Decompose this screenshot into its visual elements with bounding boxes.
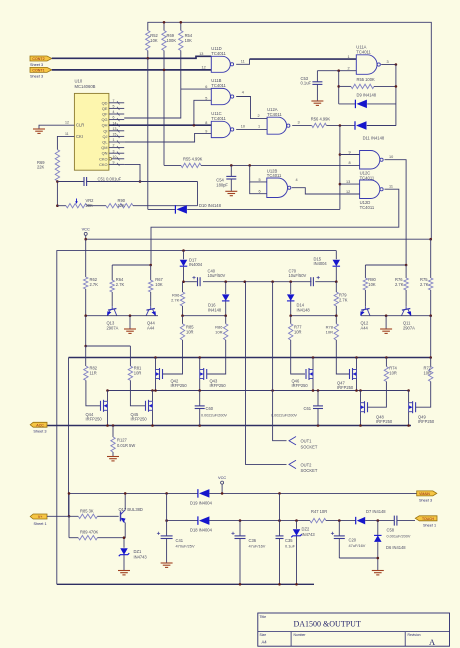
svg-text:11: 11 — [389, 185, 393, 189]
svg-text:10R: 10R — [186, 329, 194, 334]
svg-text:IN4148: IN4148 — [297, 307, 311, 312]
resistor R69b 22K — [55, 150, 59, 181]
wire R55 feedback loop — [338, 71, 340, 104]
op-amp U11A TC4011 nand gate — [356, 55, 377, 75]
svg-text:TC4011: TC4011 — [267, 112, 282, 117]
resistor R74 10R — [385, 358, 387, 367]
svg-text:12: 12 — [202, 66, 206, 70]
svg-text:22K: 22K — [37, 165, 45, 170]
svg-text:2.7K: 2.7K — [395, 282, 404, 287]
svg-text:D6 IN4148: D6 IN4148 — [386, 545, 406, 550]
svg-text:10uF/50V: 10uF/50V — [289, 273, 307, 278]
transistor Q11 2907A — [405, 306, 407, 309]
pin 2 QM of U10 — [109, 147, 124, 149]
svg-text:C58: C58 — [387, 527, 395, 532]
connector OUT2 SOCKET — [289, 460, 296, 468]
resistor R67 10K — [149, 280, 153, 292]
resistor R55b 4.99K row — [164, 164, 181, 166]
svg-text:6: 6 — [205, 85, 207, 89]
svg-text:CKO: CKO — [99, 156, 107, 161]
wire U11C output to U12A pin 1 — [236, 128, 267, 130]
wire left driver split — [112, 264, 151, 266]
resistor R56 4.99K — [292, 124, 312, 126]
svg-text:TC4011: TC4011 — [360, 205, 375, 210]
svg-text:Sheet 3: Sheet 3 — [30, 63, 43, 67]
svg-text:2.7K: 2.7K — [90, 282, 99, 287]
svg-text:10: 10 — [389, 155, 393, 159]
svg-text:TOUCH: TOUCH — [422, 517, 435, 521]
svg-text:2.7K: 2.7K — [171, 297, 180, 302]
svg-text:4: 4 — [113, 110, 115, 114]
ground at C53 — [311, 100, 323, 102]
svg-text:Sheet 1: Sheet 1 — [423, 524, 436, 528]
svg-text:IRFP250: IRFP250 — [171, 383, 188, 388]
svg-text:0.1uF: 0.1uF — [285, 543, 296, 548]
svg-text:D9 IN4148: D9 IN4148 — [357, 92, 377, 97]
wire to U12B pins — [250, 165, 267, 182]
svg-text:Sheet 3: Sheet 3 — [30, 75, 43, 79]
svg-text:10: 10 — [241, 125, 245, 129]
svg-text:OUT1: OUT1 — [301, 439, 313, 444]
svg-text:D7 IN4148: D7 IN4148 — [366, 509, 386, 514]
wire right driver split — [365, 264, 406, 266]
svg-text:6: 6 — [113, 116, 115, 120]
svg-text:CONT1: CONT1 — [32, 69, 44, 73]
svg-text:QI: QI — [103, 128, 107, 133]
svg-text:12: 12 — [346, 190, 350, 194]
wire CKI to R69b — [57, 136, 74, 149]
ground at D6 — [372, 570, 384, 572]
svg-text:VCC: VCC — [218, 475, 226, 480]
off-sheet connector CONT1 — [30, 67, 52, 72]
svg-text:QH: QH — [102, 123, 108, 128]
wire left base rail — [86, 315, 158, 317]
capacitor C70 10uF/50V — [310, 277, 312, 286]
svg-text:11R: 11R — [90, 371, 97, 376]
svg-text:V+: V+ — [38, 515, 43, 519]
wire U10 pin 9 to C51 row — [124, 164, 140, 181]
wire bottom rail — [57, 583, 314, 585]
mosfet Q47 IRFP250 — [349, 369, 351, 379]
wire D18 row — [167, 520, 198, 522]
wire U11A pin 2 row — [317, 70, 356, 72]
svg-text:C20: C20 — [349, 538, 357, 543]
svg-text:10R: 10R — [215, 329, 222, 334]
pin 15 QJ of U10 — [109, 135, 124, 137]
svg-text:A44: A44 — [361, 325, 369, 330]
op-amp U11B TC4011 nand gate — [211, 88, 230, 104]
svg-text:CKI: CKI — [76, 134, 83, 139]
off-sheet connector VM — [417, 491, 437, 496]
capacitor C20 47uF/16V — [338, 521, 340, 536]
svg-text:8: 8 — [349, 161, 351, 165]
svg-text:CLR: CLR — [76, 123, 84, 128]
resistor R78 10R — [334, 324, 338, 340]
svg-text:9: 9 — [349, 150, 351, 154]
svg-text:10K: 10K — [368, 282, 376, 287]
wire C51 to VR2 row — [197, 182, 199, 206]
wire V+ drain rail — [69, 357, 431, 359]
svg-text:R89 470K: R89 470K — [80, 530, 98, 535]
pin 13 QI of U10 — [109, 130, 124, 132]
resistor R85 10R — [180, 324, 184, 340]
svg-text:2: 2 — [348, 66, 350, 70]
svg-text:C36: C36 — [249, 538, 257, 543]
diode D6 IN4148 — [377, 521, 379, 536]
pin 10 CKO of U10 — [109, 158, 112, 161]
resistor R52 — [146, 31, 150, 51]
svg-text:10K: 10K — [185, 38, 193, 43]
svg-text:13: 13 — [113, 127, 117, 131]
svg-text:3: 3 — [113, 149, 115, 153]
svg-text:IRFP250: IRFP250 — [337, 385, 354, 390]
wire right base rail — [361, 315, 431, 317]
wire mid output rail — [108, 390, 409, 392]
pin 6 QG of U10 — [109, 119, 124, 121]
mosfet Q44 IRFP250 low — [100, 401, 102, 411]
capacitor C58 0.001uF/200V — [393, 516, 395, 526]
resistor R77 10R — [289, 324, 293, 340]
svg-text:SOCKET: SOCKET — [301, 468, 318, 473]
svg-text:Sheet 3: Sheet 3 — [33, 430, 46, 434]
wire Q17 collector — [124, 493, 126, 509]
svg-text:D18 IN4004: D18 IN4004 — [190, 528, 213, 533]
svg-text:Sheet 3: Sheet 3 — [419, 499, 432, 503]
diode D14 IN4148 — [290, 282, 292, 294]
svg-text:TC4011: TC4011 — [211, 51, 226, 56]
pin 9 CKO of U10 — [109, 163, 124, 165]
svg-text:3: 3 — [387, 60, 389, 64]
svg-text:D19 IN4004: D19 IN4004 — [190, 500, 213, 505]
capacitor C40 10uF/50V — [197, 277, 199, 286]
diode D7 IN4148 — [355, 517, 357, 525]
resistor R79 2.7K — [334, 292, 338, 306]
resistor R64 2.7K — [110, 280, 114, 292]
mosfet Q49 IRFP250 — [415, 402, 417, 412]
op-amp U11D TC4011 nand gate — [211, 56, 230, 72]
svg-text:IRFP250: IRFP250 — [210, 383, 227, 388]
svg-text:TC4011: TC4011 — [211, 83, 226, 88]
off-sheet connector ACC — [30, 422, 47, 427]
wire R54 to U11B pin 6 — [124, 51, 181, 119]
off-sheet connector V+ — [30, 514, 47, 519]
resistor R75 2.7K — [430, 239, 432, 278]
svg-text:10: 10 — [113, 155, 117, 159]
svg-text:Title: Title — [260, 615, 267, 619]
resistor R55 100K — [339, 85, 351, 87]
pin 7 QD of U10 — [109, 102, 124, 104]
svg-text:Number: Number — [294, 633, 307, 637]
capacitor C35 0.1uF — [279, 493, 281, 536]
svg-text:2: 2 — [113, 144, 115, 148]
svg-text:TC4011: TC4011 — [267, 173, 282, 178]
off-sheet connector CONT2 — [30, 56, 52, 61]
capacitor C54 180pF — [230, 165, 232, 176]
wire CONT2 to U11D pin 13 — [52, 56, 212, 58]
svg-text:R127: R127 — [117, 438, 128, 443]
title block — [258, 613, 450, 646]
svg-text:10R: 10R — [294, 329, 302, 334]
svg-text:7: 7 — [113, 99, 115, 103]
wire CONT1 to U11D pin 12 — [52, 69, 212, 71]
svg-text:DZ1: DZ1 — [134, 549, 142, 554]
svg-text:13: 13 — [346, 180, 350, 184]
svg-text:R85 3K: R85 3K — [80, 508, 94, 513]
svg-text:DA1500 &OUTPUT: DA1500 &OUTPUT — [294, 620, 361, 629]
resistor R82 11R — [85, 346, 87, 366]
svg-text:R47 10R: R47 10R — [311, 509, 327, 514]
svg-text:DZ2: DZ2 — [302, 526, 310, 531]
svg-text:0.01R 5W: 0.01R 5W — [117, 443, 135, 448]
zener DZ1 IN4743 — [120, 548, 128, 555]
svg-text:0.1uF: 0.1uF — [301, 81, 312, 86]
wire clamp rail — [57, 251, 337, 585]
svg-text:10uF/50V: 10uF/50V — [208, 273, 226, 278]
ground mid left — [129, 316, 131, 329]
svg-text:MC14060B: MC14060B — [75, 84, 96, 89]
svg-text:CKO: CKO — [99, 162, 107, 167]
svg-text:VCC: VCC — [82, 227, 90, 232]
diode D18 IN4004 — [197, 516, 199, 525]
resistor R80 10K — [363, 278, 367, 290]
svg-text:IN4004: IN4004 — [314, 261, 328, 266]
diode D11 IN4148 — [354, 121, 356, 130]
op-amp U12D TC4011 nand gate — [360, 180, 380, 199]
svg-text:QD: QD — [102, 100, 108, 105]
svg-text:0.0022uF/200V: 0.0022uF/200V — [271, 413, 297, 417]
svg-text:IRFP250: IRFP250 — [418, 419, 435, 424]
pin 5 QE of U10 — [109, 107, 124, 109]
svg-text:A4: A4 — [262, 640, 268, 645]
resistor R89 470K — [68, 516, 70, 537]
svg-text:IRFP250: IRFP250 — [86, 417, 103, 422]
svg-text:11: 11 — [241, 60, 245, 64]
svg-text:C35: C35 — [285, 538, 293, 543]
resistor R62 2.7K — [85, 239, 87, 277]
svg-text:A44: A44 — [147, 325, 155, 330]
pin 14 QH of U10 — [109, 124, 124, 126]
wire U12C output to right driver — [385, 160, 407, 265]
ground mid right — [385, 316, 387, 329]
mosfet Q42 IRFP250 — [162, 369, 164, 379]
op-amp U12B TC4011 nand gate — [267, 178, 288, 198]
svg-text:C51 0.001uF: C51 0.001uF — [98, 176, 122, 181]
svg-text:A: A — [429, 637, 436, 647]
svg-text:U10: U10 — [75, 79, 83, 84]
svg-text:47uF/16V: 47uF/16V — [249, 543, 266, 548]
op-amp U11C TC4011 nand gate — [211, 121, 230, 137]
potentiometer VR2 20K — [57, 205, 66, 207]
resistor R96 2.7K — [180, 292, 184, 306]
svg-text:9: 9 — [113, 161, 115, 165]
svg-text:2: 2 — [258, 114, 260, 118]
svg-text:QN: QN — [102, 151, 108, 156]
svg-text:1: 1 — [113, 138, 115, 142]
svg-text:IN4743: IN4743 — [302, 532, 316, 537]
wire OUT2 column — [246, 282, 287, 465]
svg-text:TC4011: TC4011 — [211, 116, 226, 121]
svg-text:QG: QG — [101, 117, 107, 122]
diode D17 IN4004 — [183, 251, 185, 260]
svg-text:3: 3 — [298, 121, 300, 125]
wire OUT1 column — [273, 282, 287, 441]
svg-text:180pF: 180pF — [216, 183, 228, 188]
svg-text:5: 5 — [113, 105, 115, 109]
wire U12B output to U12D pin 12 — [292, 188, 360, 194]
op-amp U12C TC4011 nand gate — [360, 151, 380, 170]
capacitor C36 47uF/16V — [239, 521, 241, 536]
svg-text:10R: 10R — [134, 371, 142, 376]
svg-text:2907A: 2907A — [107, 325, 119, 330]
svg-text:CONT2: CONT2 — [32, 57, 44, 61]
capacitor C60 0.0022uF/200V — [199, 391, 201, 406]
wire branch to U11B pin 5 — [194, 100, 211, 125]
svg-text:D11 IN4148: D11 IN4148 — [363, 136, 385, 141]
svg-text:IRFP250: IRFP250 — [292, 383, 309, 388]
diode D10 IN4148 — [147, 58, 149, 209]
svg-text:2907A: 2907A — [403, 325, 415, 330]
pin 4 QF of U10 — [109, 113, 124, 115]
svg-text:4: 4 — [242, 91, 244, 95]
wire C40 row — [184, 281, 197, 283]
svg-text:IN4148: IN4148 — [208, 307, 222, 312]
svg-text:QM: QM — [101, 145, 107, 150]
resistor R47 10R — [310, 518, 326, 522]
svg-text:IRFP250: IRFP250 — [376, 419, 393, 424]
svg-text:11: 11 — [65, 132, 69, 136]
mosfet Q46 IRFP250 — [305, 369, 307, 379]
resistor R76 2.7K — [404, 278, 408, 290]
wire VCC top rail — [147, 51, 149, 59]
svg-text:2.7K: 2.7K — [116, 282, 125, 287]
off-sheet connector TOUCH — [415, 516, 437, 521]
resistor R72 10R — [430, 358, 432, 367]
transistor Q12 A44 — [364, 306, 366, 309]
capacitor C41 470uF/25V — [166, 493, 168, 536]
svg-text:10R: 10R — [389, 371, 397, 376]
capacitor C51 0.001uF — [57, 181, 84, 183]
svg-text:10K: 10K — [150, 38, 158, 43]
resistor R81 10R — [129, 346, 131, 366]
svg-text:VMAIN: VMAIN — [419, 492, 430, 496]
wire Q17 emitter — [124, 523, 125, 548]
svg-text:R55 4.99K: R55 4.99K — [183, 157, 203, 162]
svg-text:2.7K: 2.7K — [339, 297, 348, 302]
resistor R54 — [180, 22, 182, 30]
resistor R69 — [163, 22, 165, 30]
svg-text:C61: C61 — [304, 406, 312, 411]
wire U10 pin 14 to U11C pin 8 — [109, 124, 211, 126]
svg-text:1: 1 — [258, 125, 260, 129]
svg-text:C60: C60 — [206, 406, 214, 411]
wire VCC rail bottom — [69, 492, 167, 494]
svg-text:0.001uF/200V: 0.001uF/200V — [387, 534, 411, 538]
svg-text:10R: 10R — [424, 371, 432, 376]
connector OUT1 SOCKET — [289, 437, 296, 445]
diode D9 IN4148 — [339, 103, 356, 105]
wire V+ row — [47, 515, 78, 517]
svg-text:C41: C41 — [176, 538, 184, 543]
svg-text:1: 1 — [348, 55, 350, 59]
wire U11A output node — [381, 64, 396, 66]
svg-text:TC4011: TC4011 — [356, 50, 371, 55]
wire U12 input column — [339, 126, 341, 210]
wire gate feed line left — [86, 345, 131, 347]
transistor Q44 A44 — [150, 306, 152, 309]
svg-text:Q17 BUL38D: Q17 BUL38D — [119, 507, 143, 512]
svg-text:QJ: QJ — [103, 134, 108, 139]
pin 1 QL of U10 — [109, 141, 124, 143]
wire chain to output — [85, 316, 87, 346]
svg-text:2.7K: 2.7K — [420, 282, 429, 287]
wire U11D output to U11A pin 1 — [236, 59, 249, 64]
resistor R85b 3K — [78, 514, 97, 518]
svg-text:ACC: ACC — [36, 423, 44, 427]
svg-text:R55 100K: R55 100K — [357, 77, 375, 82]
svg-text:Sheet 1: Sheet 1 — [34, 522, 47, 526]
pin 3 QN of U10 — [109, 152, 124, 154]
svg-text:6: 6 — [259, 190, 261, 194]
wire source rail bottom — [47, 425, 411, 427]
ground at DZ1 — [118, 570, 130, 572]
transistor Q17 BUL38D — [120, 512, 122, 522]
zener DZ2 IN4743 — [296, 521, 298, 529]
svg-text:0.0022uF/200V: 0.0022uF/200V — [201, 413, 227, 417]
node rail junctions — [163, 21, 166, 24]
wire U11C pin 9 to U10 pin 1 — [124, 133, 211, 142]
ground at R127 — [107, 456, 119, 458]
wire R75 bottom chain — [430, 316, 432, 358]
svg-text:12K: 12K — [118, 203, 126, 208]
svg-text:QE: QE — [102, 106, 108, 111]
wire mid row2 left — [183, 315, 226, 317]
svg-text:Revision: Revision — [408, 633, 421, 637]
svg-text:4: 4 — [296, 178, 298, 182]
svg-text:IN4004: IN4004 — [189, 262, 203, 267]
ground at C54 — [225, 190, 237, 192]
svg-text:IN4743: IN4743 — [134, 554, 148, 559]
diode D19 IN4004 — [197, 489, 199, 498]
resistor R90 12K — [106, 204, 133, 208]
svg-text:20K: 20K — [86, 203, 94, 208]
wire U12D output feedback to left driver — [151, 189, 399, 265]
svg-text:QL: QL — [102, 140, 108, 145]
svg-text:OUT2: OUT2 — [301, 462, 313, 467]
svg-text:QF: QF — [102, 112, 108, 117]
svg-text:15: 15 — [113, 133, 117, 137]
svg-text:Size: Size — [260, 633, 267, 637]
svg-text:SOCKET: SOCKET — [301, 444, 318, 449]
svg-text:R56 4.99K: R56 4.99K — [311, 117, 331, 122]
svg-text:100K: 100K — [167, 38, 177, 43]
op-amp U12A TC4011 nand gate — [267, 117, 287, 134]
diode D15 IN4004 — [335, 251, 337, 260]
capacitor C61 0.0022uF/200V — [317, 391, 319, 406]
svg-text:D10 IN4148: D10 IN4148 — [199, 203, 222, 208]
mosfet Q45 IRFP250 low — [145, 401, 147, 411]
svg-text:IRFP250: IRFP250 — [131, 417, 148, 422]
ground at U10 CLR — [33, 128, 45, 130]
svg-text:13: 13 — [199, 52, 203, 56]
svg-text:10K: 10K — [155, 282, 163, 287]
mosfet Q43 IRFP250 — [206, 369, 208, 379]
wire mid row2 right — [291, 315, 337, 317]
resistor R86 10R — [224, 324, 228, 340]
wire CLR to ground — [39, 125, 74, 129]
wire VCC rail mid — [86, 238, 432, 240]
mosfet Q48 IRFP250 — [367, 402, 369, 412]
diode D16 IN4148 — [225, 282, 227, 294]
